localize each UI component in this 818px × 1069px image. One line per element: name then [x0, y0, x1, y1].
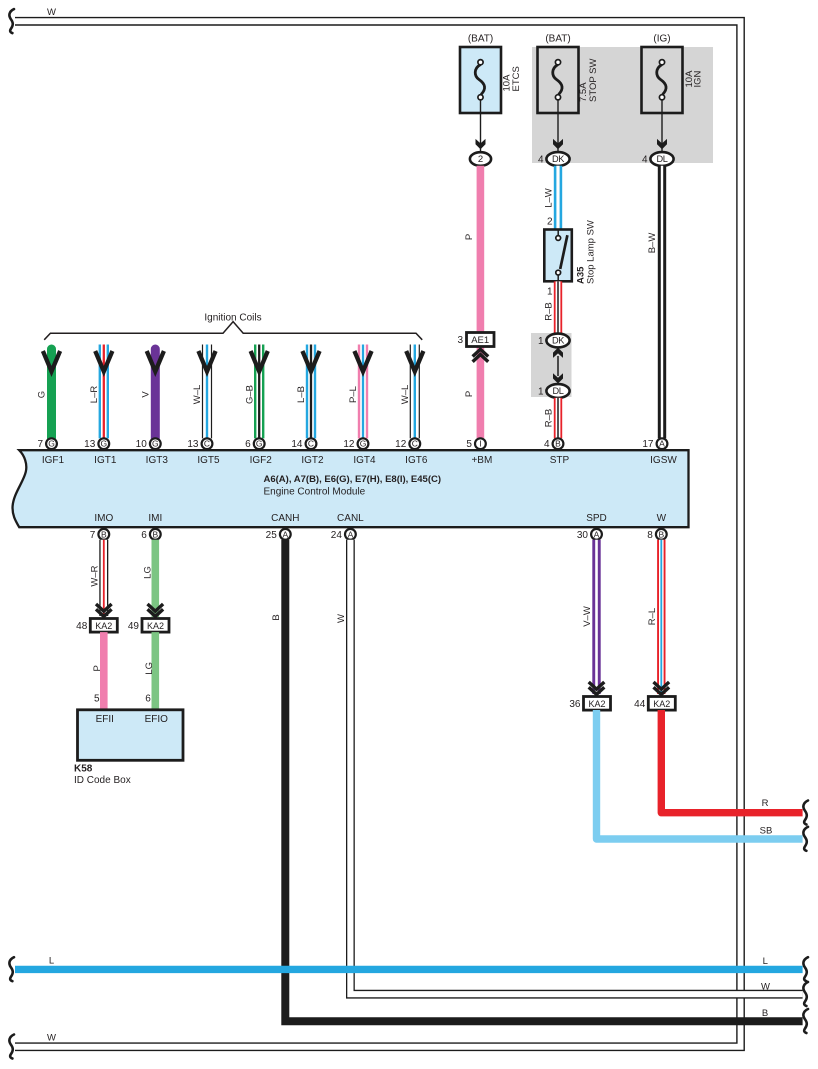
svg-text:A: A	[659, 439, 665, 449]
svg-text:STP: STP	[550, 455, 570, 466]
svg-text:SB: SB	[760, 826, 773, 837]
svg-text:SPD: SPD	[586, 513, 607, 524]
svg-text:G: G	[256, 439, 263, 449]
svg-text:CANH: CANH	[271, 513, 299, 524]
svg-text:B: B	[101, 529, 107, 539]
svg-text:P: P	[464, 234, 475, 240]
svg-text:Ignition Coils: Ignition Coils	[204, 313, 261, 324]
svg-text:IGN: IGN	[693, 70, 704, 87]
svg-text:B: B	[271, 614, 282, 620]
svg-text:LG: LG	[143, 566, 154, 579]
svg-text:B: B	[152, 529, 158, 539]
svg-text:12: 12	[395, 439, 407, 450]
svg-text:W: W	[657, 513, 667, 524]
svg-text:LG: LG	[144, 662, 155, 675]
svg-text:W–R: W–R	[89, 565, 100, 586]
svg-text:Stop Lamp SW: Stop Lamp SW	[586, 220, 597, 284]
svg-text:13: 13	[187, 439, 199, 450]
svg-text:L–W: L–W	[544, 188, 555, 208]
svg-text:DL: DL	[657, 154, 668, 164]
svg-text:IMI: IMI	[148, 513, 162, 524]
svg-text:G: G	[100, 439, 107, 449]
svg-text:DL: DL	[553, 386, 564, 396]
svg-text:A: A	[348, 529, 354, 539]
svg-text:KA2: KA2	[653, 699, 670, 709]
svg-text:W: W	[761, 982, 770, 993]
svg-text:P: P	[464, 391, 475, 397]
svg-text:IGT1: IGT1	[94, 455, 117, 466]
svg-text:R–B: R–B	[544, 409, 555, 427]
svg-text:4: 4	[538, 154, 544, 165]
svg-text:6: 6	[141, 530, 147, 541]
svg-text:EFII: EFII	[96, 714, 114, 725]
svg-text:B: B	[762, 1008, 768, 1019]
svg-text:EFIO: EFIO	[145, 714, 169, 725]
svg-text:48: 48	[76, 621, 88, 632]
svg-text:14: 14	[291, 439, 303, 450]
svg-text:DK: DK	[552, 336, 565, 346]
svg-text:L: L	[763, 956, 768, 967]
svg-text:6: 6	[145, 694, 151, 705]
svg-text:ETCS: ETCS	[511, 66, 522, 91]
svg-text:W–L: W–L	[192, 385, 203, 405]
svg-text:IGT6: IGT6	[405, 455, 428, 466]
svg-text:V–W: V–W	[582, 606, 593, 627]
svg-text:(BAT): (BAT)	[545, 34, 570, 45]
svg-text:W–L: W–L	[400, 385, 411, 405]
svg-text:B: B	[658, 529, 664, 539]
svg-text:STOP SW: STOP SW	[588, 59, 599, 102]
svg-text:A6(A), A7(B), E6(G), E7(H), E8: A6(A), A7(B), E6(G), E7(H), E8(I), E45(C…	[264, 474, 442, 485]
svg-text:1: 1	[538, 386, 544, 397]
svg-text:IGSW: IGSW	[650, 455, 677, 466]
svg-text:8: 8	[647, 530, 653, 541]
svg-text:B–W: B–W	[647, 233, 658, 254]
svg-text:17: 17	[642, 439, 654, 450]
svg-text:IGT4: IGT4	[353, 455, 376, 466]
svg-text:44: 44	[634, 699, 646, 710]
svg-text:L–R: L–R	[89, 386, 100, 404]
svg-text:1: 1	[547, 286, 553, 297]
svg-text:C: C	[308, 439, 314, 449]
svg-text:CANL: CANL	[337, 513, 364, 524]
svg-text:KA2: KA2	[95, 621, 112, 631]
svg-text:12: 12	[343, 439, 355, 450]
svg-text:7: 7	[37, 439, 43, 450]
svg-text:P: P	[92, 665, 103, 671]
svg-text:5: 5	[94, 694, 100, 705]
svg-text:6: 6	[245, 439, 251, 450]
svg-text:R–B: R–B	[544, 302, 555, 320]
svg-text:10: 10	[136, 439, 148, 450]
svg-text:B: B	[555, 439, 561, 449]
svg-text:G: G	[152, 439, 159, 449]
svg-text:DK: DK	[552, 154, 565, 164]
svg-text:24: 24	[331, 530, 343, 541]
svg-text:IMO: IMO	[94, 513, 113, 524]
svg-text:49: 49	[128, 621, 140, 632]
svg-text:R–L: R–L	[647, 608, 658, 625]
svg-text:L: L	[49, 956, 54, 967]
svg-text:(BAT): (BAT)	[468, 34, 493, 45]
svg-text:1: 1	[538, 336, 544, 347]
svg-text:25: 25	[266, 530, 278, 541]
svg-text:K58: K58	[74, 763, 93, 774]
svg-text:30: 30	[577, 530, 589, 541]
svg-text:R: R	[762, 798, 769, 809]
svg-text:Engine Control Module: Engine Control Module	[264, 486, 366, 497]
svg-text:IGT3: IGT3	[146, 455, 169, 466]
svg-text:W: W	[47, 7, 56, 18]
svg-text:2: 2	[478, 154, 483, 165]
svg-text:AE1: AE1	[471, 335, 489, 346]
svg-text:36: 36	[569, 699, 581, 710]
svg-text:G: G	[37, 391, 48, 398]
svg-text:IGF2: IGF2	[250, 455, 273, 466]
svg-text:C: C	[412, 439, 418, 449]
svg-text:G: G	[360, 439, 367, 449]
svg-text:A: A	[594, 529, 600, 539]
svg-text:IGT5: IGT5	[197, 455, 220, 466]
svg-text:L–B: L–B	[296, 386, 307, 403]
svg-text:5: 5	[466, 439, 472, 450]
svg-text:13: 13	[84, 439, 96, 450]
svg-text:2: 2	[547, 217, 553, 228]
svg-text:7: 7	[90, 530, 96, 541]
svg-text:IGT2: IGT2	[301, 455, 324, 466]
svg-text:I: I	[479, 439, 481, 449]
svg-text:P–L: P–L	[348, 386, 359, 403]
svg-text:A: A	[282, 529, 288, 539]
svg-text:3: 3	[457, 335, 463, 346]
svg-text:V: V	[141, 391, 152, 398]
svg-text:G: G	[48, 439, 55, 449]
svg-text:C: C	[204, 439, 210, 449]
svg-text:W: W	[47, 1033, 56, 1044]
svg-text:4: 4	[544, 439, 550, 450]
svg-text:KA2: KA2	[588, 699, 605, 709]
svg-text:(IG): (IG)	[653, 34, 670, 45]
svg-text:IGF1: IGF1	[42, 455, 65, 466]
svg-text:4: 4	[642, 154, 648, 165]
svg-text:KA2: KA2	[147, 621, 164, 631]
svg-text:G–B: G–B	[244, 385, 255, 404]
svg-text:ID Code Box: ID Code Box	[74, 775, 131, 786]
svg-text:+BM: +BM	[471, 455, 492, 466]
svg-text:W: W	[336, 614, 347, 623]
